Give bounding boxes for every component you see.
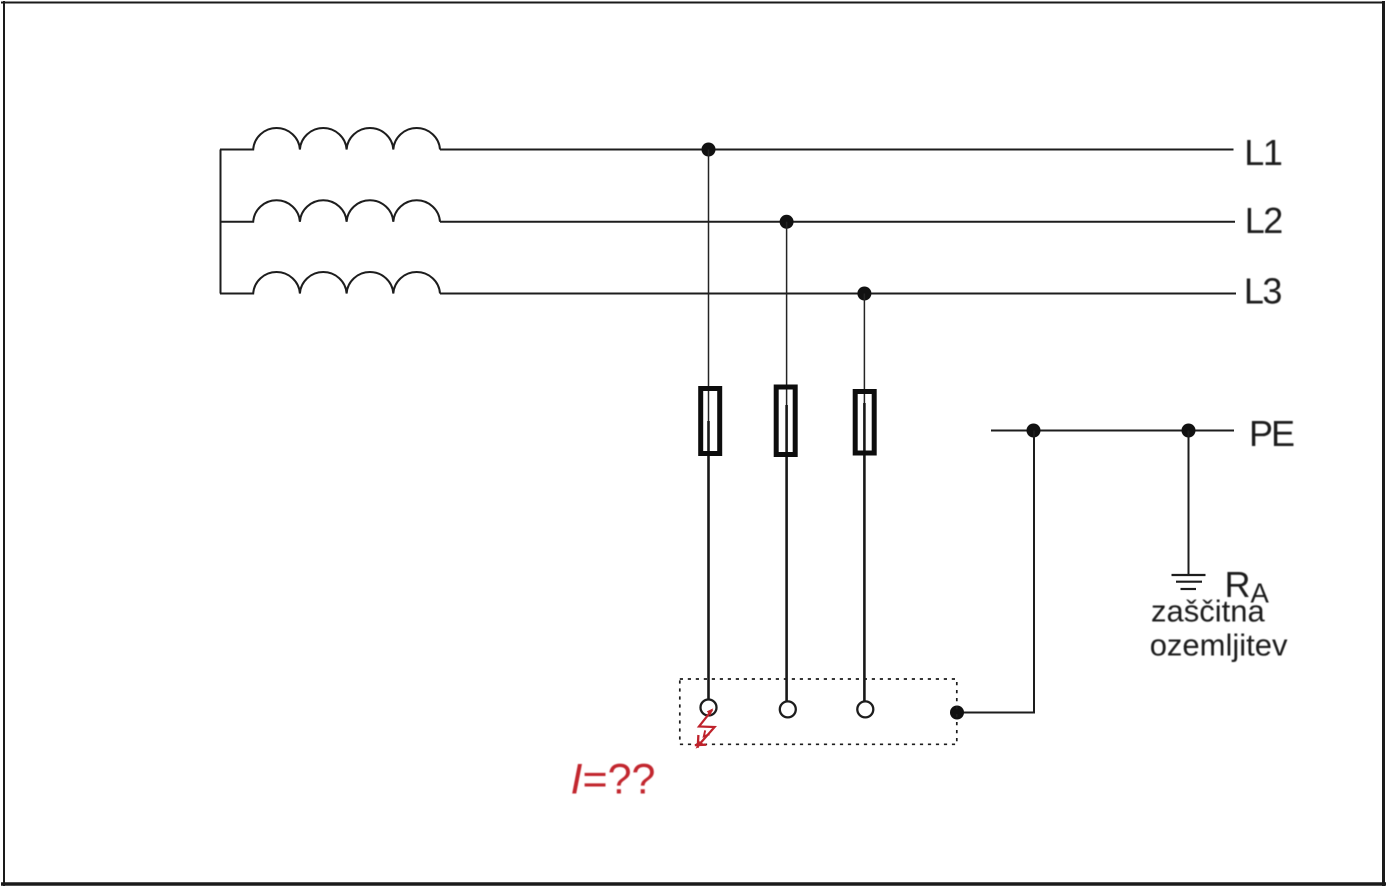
wire from fuse F2 to terminal (thick lower part) xyxy=(785,405,788,701)
terminal 1 xyxy=(701,700,717,716)
terminal 3 xyxy=(857,701,873,717)
fuse F1 xyxy=(701,389,720,454)
fuse F3 xyxy=(855,392,874,454)
PE conductor horizontal xyxy=(991,430,1234,432)
load enclosure (dashed box) xyxy=(680,679,957,744)
svg-text:L1: L1 xyxy=(1244,132,1282,173)
svg-text:ozemljitev: ozemljitev xyxy=(1150,628,1288,663)
node on PE (right) xyxy=(1182,424,1196,438)
node on L3 xyxy=(857,287,871,301)
transformer winding phase 3 xyxy=(220,272,440,293)
svg-text:L2: L2 xyxy=(1245,200,1283,241)
wire drop from L3 to fuse F3 (thin upper part) xyxy=(863,294,865,404)
wire from PE node down to load frame xyxy=(956,431,1034,713)
svg-text:PE: PE xyxy=(1249,413,1294,454)
node on PE (left) xyxy=(1027,424,1041,438)
ground symbol (earth electrode RA) xyxy=(1172,575,1206,589)
wire L3 horizontal xyxy=(440,293,1236,295)
left bus wire connecting the three windings xyxy=(220,150,222,294)
wire L1 horizontal xyxy=(440,149,1234,151)
wire drop from L2 to fuse F2 (thin upper part) xyxy=(786,222,788,405)
fault lightning arrow (red) xyxy=(695,708,715,749)
svg-text:L3: L3 xyxy=(1244,270,1282,311)
terminal 2 xyxy=(780,701,796,717)
wire from fuse F1 to terminal (thick lower part) xyxy=(707,421,710,700)
fuse F2 xyxy=(776,387,795,455)
svg-text:I=??: I=?? xyxy=(571,756,656,804)
svg-text:zaščitna: zaščitna xyxy=(1151,594,1265,629)
wire from PE node down to earth electrode xyxy=(1188,431,1190,575)
wire L2 horizontal xyxy=(440,221,1235,223)
transformer winding phase 2 xyxy=(220,200,440,221)
node on L2 xyxy=(780,215,794,229)
wire from fuse F3 to terminal (thick lower part) xyxy=(863,403,866,701)
transformer winding phase 1 xyxy=(220,128,440,149)
junction dot on load frame xyxy=(950,706,964,720)
node on L1 xyxy=(702,143,716,157)
wire drop from L1 to fuse F1 (thin upper part) xyxy=(708,150,710,422)
